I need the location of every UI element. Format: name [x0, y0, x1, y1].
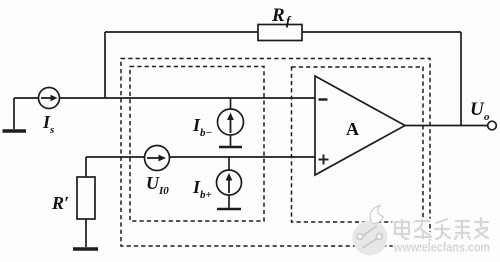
- resistor Rf: [258, 25, 302, 41]
- watermark chinese text: [395, 218, 488, 239]
- voltage source Ufo: [145, 146, 170, 171]
- minus input symbol: [319, 98, 328, 100]
- label Is: [42, 112, 54, 136]
- current source Is: [39, 88, 60, 109]
- resistor R-prime: [77, 177, 95, 219]
- label Ib+: [192, 177, 212, 201]
- wire left ground stub: [13, 98, 15, 129]
- wire R-prime top stub: [85, 157, 87, 177]
- current source Ib-: [218, 98, 244, 147]
- op-amp U1: [315, 76, 405, 175]
- svg-text:U: U: [470, 99, 485, 120]
- label Ufo: [146, 173, 169, 197]
- label Ib-: [192, 115, 212, 139]
- svg-text:U: U: [146, 173, 160, 193]
- svg-text:s: s: [49, 124, 54, 136]
- dashed box offset sources: [130, 67, 264, 222]
- svg-text:www.elecfans.com: www.elecfans.com: [393, 241, 490, 255]
- watermark logo: [353, 206, 388, 256]
- wire non-inverting input line: [86, 156, 315, 158]
- dashed box outer (op-amp model boundary): [121, 59, 430, 247]
- svg-text:R: R: [271, 5, 285, 26]
- current source Ib+: [217, 157, 242, 209]
- dashed box ideal op-amp: [292, 67, 424, 222]
- wire R-prime bottom stub: [85, 219, 87, 247]
- plus input symbol: [319, 159, 329, 161]
- wire inverting input line: [14, 97, 315, 99]
- wire top feedback: [105, 32, 461, 126]
- label Rf: [271, 5, 292, 28]
- svg-text:o: o: [484, 111, 490, 123]
- svg-text:b−: b−: [200, 127, 212, 139]
- svg-text:b+: b+: [200, 189, 212, 201]
- ground R-prime: [73, 247, 98, 251]
- svg-text:R′: R′: [51, 193, 69, 213]
- output terminal: [488, 121, 497, 130]
- svg-text:A: A: [346, 119, 359, 139]
- wire vertical from top wire to inverting input node: [104, 32, 106, 98]
- label Uo: [470, 99, 490, 123]
- wire output: [405, 125, 488, 127]
- ground left: [3, 129, 27, 133]
- svg-text:I0: I0: [158, 185, 169, 197]
